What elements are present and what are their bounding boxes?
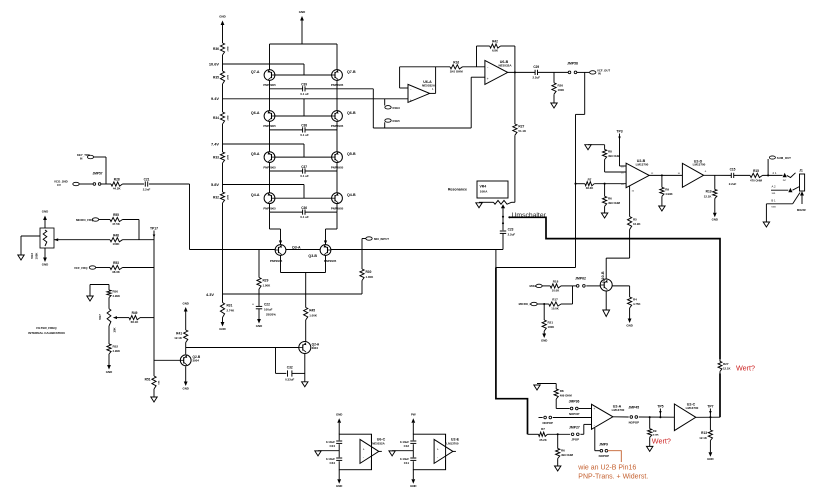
svg-text:Q3-A: Q3-A	[292, 246, 301, 250]
svg-text:C24: C24	[329, 444, 335, 448]
svg-text:GND: GND	[219, 327, 225, 331]
svg-text:R34: R34	[213, 116, 219, 120]
svg-text:C37: C37	[301, 165, 307, 169]
svg-text:R31: R31	[227, 304, 233, 308]
svg-text:0.1 uF: 0.1 uF	[300, 215, 309, 219]
svg-text:10KA: 10KA	[480, 190, 489, 194]
svg-text:C12: C12	[404, 444, 410, 448]
svg-text:TP7: TP7	[707, 404, 713, 408]
svg-text:R9: R9	[665, 188, 669, 192]
svg-text:GND: GND	[219, 15, 225, 19]
svg-text:+: +	[705, 170, 707, 174]
svg-text:Q4-A: Q4-A	[251, 193, 260, 197]
svg-text:4.99K: 4.99K	[113, 349, 120, 353]
svg-text:R27: R27	[723, 362, 729, 366]
svg-text:9.4V: 9.4V	[211, 96, 219, 101]
svg-text:A 2: A 2	[771, 185, 775, 189]
svg-text:R49: R49	[132, 311, 138, 315]
svg-text:GND: GND	[42, 210, 48, 214]
svg-text:2.2uF: 2.2uF	[533, 76, 541, 80]
svg-text:0.1 uF: 0.1 uF	[300, 174, 309, 178]
svg-text:GND: GND	[256, 324, 262, 328]
svg-text:47.5K: 47.5K	[112, 222, 121, 226]
svg-text:R45: R45	[309, 309, 315, 313]
svg-text:R53: R53	[113, 261, 119, 265]
svg-text:499 OHM: 499 OHM	[608, 154, 621, 158]
svg-text:+: +	[363, 448, 365, 452]
svg-text:R5: R5	[633, 218, 637, 222]
svg-text:C21: C21	[144, 177, 150, 181]
svg-text:16.9K: 16.9K	[633, 222, 640, 226]
svg-text:499 OHM: 499 OHM	[608, 201, 621, 205]
svg-text:GND: GND	[707, 457, 713, 461]
svg-text:R55: R55	[113, 213, 119, 217]
svg-text:CV: CV	[57, 183, 61, 187]
svg-text:IN: IN	[598, 72, 601, 76]
svg-text:100K: 100K	[558, 88, 565, 92]
svg-text:R8: R8	[560, 389, 564, 393]
svg-text:12.1K: 12.1K	[704, 194, 713, 198]
svg-text:R6: R6	[608, 197, 612, 201]
svg-text:NOPOP: NOPOP	[629, 420, 640, 424]
svg-text:68.1K: 68.1K	[131, 320, 140, 324]
svg-text:4.75K: 4.75K	[633, 302, 640, 306]
svg-text:100uF: 100uF	[264, 307, 273, 311]
svg-text:0.1 uF: 0.1 uF	[300, 133, 309, 137]
svg-text:B 1: B 1	[771, 199, 776, 203]
svg-text:Q4-B: Q4-B	[347, 193, 356, 197]
svg-text:GND: GND	[106, 370, 112, 374]
svg-text:R26: R26	[558, 83, 564, 87]
svg-text:Q5-B: Q5-B	[347, 152, 356, 156]
svg-text:JMP57: JMP57	[92, 172, 102, 176]
svg-text:GND: GND	[299, 10, 305, 14]
svg-text:JMP62: JMP62	[575, 277, 586, 281]
svg-text:LM13700: LM13700	[636, 163, 649, 167]
svg-text:GND: GND	[626, 323, 632, 327]
svg-text:C11: C11	[404, 461, 410, 465]
svg-text:GND: GND	[42, 262, 48, 266]
svg-text:R32: R32	[213, 196, 219, 200]
svg-text:4.3V: 4.3V	[206, 292, 214, 297]
svg-text:2K87: 2K87	[226, 46, 228, 52]
svg-text:SM4: SM4	[771, 207, 776, 209]
svg-text:R13: R13	[701, 431, 707, 435]
svg-text:VR7: VR7	[98, 314, 102, 320]
svg-text:C32: C32	[287, 365, 293, 369]
svg-text:MICRO_2: MICRO_2	[519, 302, 532, 306]
svg-text:C23: C23	[508, 228, 514, 232]
svg-text:PW: PW	[411, 412, 416, 416]
svg-text:100K: 100K	[548, 325, 555, 329]
svg-text:12.1K: 12.1K	[174, 336, 183, 340]
svg-text:Q7-B: Q7-B	[347, 70, 356, 74]
svg-text:+: +	[593, 407, 595, 411]
svg-text:R33: R33	[213, 156, 219, 160]
svg-text:GND: GND	[182, 302, 188, 306]
svg-text:GND: GND	[336, 412, 342, 416]
svg-text:7.4V: 7.4V	[211, 141, 219, 146]
svg-text:JMP45: JMP45	[628, 406, 639, 410]
svg-text:R1E3: R1E3	[393, 106, 401, 110]
svg-text:TP17: TP17	[150, 226, 158, 230]
svg-text:R48: R48	[113, 233, 119, 237]
svg-text:R17: R17	[552, 298, 558, 302]
svg-text:MIX_INPUT: MIX_INPUT	[374, 237, 389, 241]
svg-text:2K87: 2K87	[226, 75, 228, 81]
svg-text:IN: IN	[80, 157, 83, 160]
svg-text:470 OHM: 470 OHM	[750, 179, 763, 183]
svg-text:LM13700: LM13700	[693, 163, 706, 167]
svg-text:wie an U2-B Pin16: wie an U2-B Pin16	[577, 464, 636, 471]
svg-text:C38: C38	[301, 124, 307, 128]
svg-text:C29: C29	[533, 65, 539, 69]
svg-text:R42: R42	[492, 40, 498, 44]
svg-text:10.0K: 10.0K	[551, 307, 558, 311]
svg-text:R7: R7	[588, 177, 592, 181]
svg-text:JMP27: JMP27	[569, 425, 580, 429]
svg-text:10.6V: 10.6V	[209, 61, 220, 66]
svg-text:Resonance: Resonance	[448, 187, 467, 191]
svg-text:Q6-A: Q6-A	[251, 111, 260, 115]
svg-text:GND: GND	[712, 218, 718, 222]
svg-text:C36: C36	[301, 206, 307, 210]
svg-text:6.8K: 6.8K	[492, 49, 499, 53]
svg-text:100K: 100K	[35, 253, 39, 260]
svg-text:499 OHM: 499 OHM	[560, 394, 573, 398]
svg-text:LM13700: LM13700	[612, 408, 625, 412]
svg-text:100K: 100K	[113, 242, 121, 246]
svg-text:TP3: TP3	[616, 129, 622, 133]
svg-text:38.3K: 38.3K	[112, 270, 121, 274]
svg-text:R41: R41	[176, 332, 182, 336]
svg-text:C34: C34	[329, 461, 335, 465]
svg-text:NE5532A: NE5532A	[422, 84, 436, 88]
svg-text:2.74K: 2.74K	[227, 309, 236, 313]
svg-text:5.8V: 5.8V	[211, 182, 219, 187]
svg-text:44.2K: 44.2K	[113, 187, 122, 191]
svg-text:38.3K: 38.3K	[586, 186, 593, 190]
svg-text:R7: R7	[541, 427, 545, 431]
svg-text:R9: R9	[653, 429, 657, 433]
svg-text:R27: R27	[518, 125, 524, 129]
svg-text:1.00K: 1.00K	[309, 314, 318, 318]
svg-text:VCF_FRQ: VCF_FRQ	[74, 266, 88, 270]
svg-text:NE5532A: NE5532A	[498, 63, 512, 67]
svg-text:499 OHM: 499 OHM	[561, 453, 574, 457]
svg-text:Q6-B: Q6-B	[347, 111, 356, 115]
svg-text:R30: R30	[366, 270, 372, 274]
svg-text:R29: R29	[263, 279, 269, 283]
svg-text:VR3: VR3	[30, 253, 34, 259]
svg-text:2K87: 2K87	[226, 155, 228, 161]
svg-text:JPOP: JPOP	[571, 438, 579, 442]
svg-text:0.33uF: 0.33uF	[285, 378, 294, 382]
svg-text:GND: GND	[336, 484, 342, 488]
svg-text:NOPOP: NOPOP	[542, 421, 553, 425]
svg-text:R13: R13	[706, 190, 712, 194]
svg-text:NOPOP: NOPOP	[569, 412, 580, 416]
svg-text:R36: R36	[213, 47, 219, 51]
svg-text:MICRO_FRQ: MICRO_FRQ	[76, 218, 94, 222]
svg-text:+: +	[410, 98, 412, 102]
svg-text:J1: J1	[799, 168, 803, 172]
svg-text:0.1 uF: 0.1 uF	[300, 92, 309, 96]
svg-text:NE5532A: NE5532A	[372, 441, 385, 445]
svg-text:12.1K: 12.1K	[723, 366, 730, 370]
svg-text:FILTER_FREQ: FILTER_FREQ	[36, 326, 57, 330]
svg-text:R6: R6	[561, 449, 565, 453]
svg-text:3904: 3904	[312, 346, 319, 350]
svg-text:10.0K: 10.0K	[552, 288, 559, 292]
svg-text:KEY_TRK: KEY_TRK	[77, 153, 90, 157]
svg-text:INTERNAL CALIBRATION: INTERNAL CALIBRATION	[28, 331, 64, 335]
svg-text:Q7-A: Q7-A	[251, 70, 260, 74]
svg-text:R1E5: R1E5	[393, 119, 401, 123]
svg-text:R18: R18	[553, 280, 559, 284]
svg-text:25/20%: 25/20%	[266, 313, 276, 317]
svg-text:GND: GND	[182, 386, 188, 390]
svg-text:JMP58: JMP58	[567, 61, 578, 65]
svg-text:2 1: 2 1	[773, 171, 777, 175]
svg-text:PNP-Trans. + Widerst.: PNP-Trans. + Widerst.	[578, 473, 648, 480]
svg-text:2.2nF: 2.2nF	[143, 188, 151, 192]
svg-text:Q3-B: Q3-B	[308, 254, 317, 258]
svg-text:TP5: TP5	[657, 404, 663, 408]
svg-text:R8: R8	[608, 150, 612, 154]
svg-text:Wert?: Wert?	[652, 437, 671, 446]
svg-text:1.00K: 1.00K	[263, 284, 272, 288]
svg-text:Q5-A: Q5-A	[251, 152, 260, 156]
svg-text:R21: R21	[548, 321, 554, 325]
svg-text:SUM_OUT: SUM_OUT	[777, 156, 791, 160]
svg-text:GND: GND	[410, 484, 416, 488]
svg-text:2.2uF: 2.2uF	[729, 182, 737, 186]
svg-text:C15: C15	[730, 168, 736, 172]
svg-text:JMP9: JMP9	[599, 442, 608, 446]
svg-text:C22: C22	[264, 302, 270, 306]
svg-text:+: +	[252, 302, 254, 306]
svg-text:12.1K: 12.1K	[699, 436, 708, 440]
svg-text:4.99K: 4.99K	[113, 294, 120, 298]
svg-text:3904: 3904	[193, 358, 200, 362]
svg-text:1.00K: 1.00K	[366, 275, 375, 279]
svg-text:Wert?: Wert?	[736, 363, 755, 372]
svg-text:MX24F: MX24F	[797, 208, 807, 212]
svg-text:+: +	[437, 448, 439, 452]
svg-text:LM13700: LM13700	[446, 441, 459, 445]
svg-text:+: +	[487, 77, 489, 81]
svg-text:LM13700: LM13700	[686, 406, 699, 410]
svg-text:R4: R4	[633, 298, 637, 302]
svg-text:2.2uF: 2.2uF	[508, 232, 516, 236]
svg-text:C39: C39	[301, 83, 307, 87]
svg-text:R35: R35	[213, 76, 219, 80]
svg-text:R15: R15	[753, 169, 759, 173]
svg-text:2K87: 2K87	[226, 195, 228, 201]
svg-text:35.2K: 35.2K	[539, 438, 546, 442]
svg-text:51.1K: 51.1K	[518, 129, 527, 133]
svg-text:VR4: VR4	[480, 184, 487, 188]
svg-text:R28: R28	[114, 178, 120, 182]
svg-text:1K0 OHM: 1K0 OHM	[450, 69, 463, 73]
svg-text:JMP36: JMP36	[569, 399, 580, 403]
svg-text:NOPOP: NOPOP	[599, 454, 610, 458]
svg-text:10K: 10K	[113, 326, 117, 332]
svg-text:R51: R51	[145, 378, 151, 382]
svg-text:GND: GND	[541, 338, 547, 342]
svg-text:4.99K: 4.99K	[665, 192, 672, 196]
svg-text:R16: R16	[453, 60, 459, 64]
svg-text:2K87: 2K87	[226, 115, 228, 121]
